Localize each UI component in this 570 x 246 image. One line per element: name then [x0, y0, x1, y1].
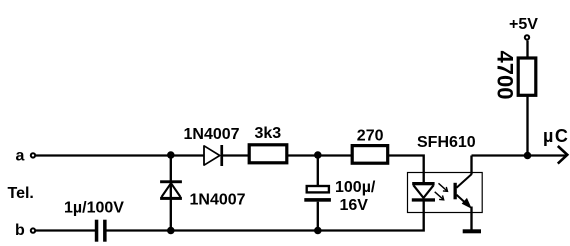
wire R1 to R2 [288, 154, 352, 156]
wire diode D2 branch [170, 156, 172, 231]
wire +5V to R3 [526, 41, 528, 58]
terminal a [31, 153, 35, 157]
svg-text:1µ/100V: 1µ/100V [64, 200, 124, 217]
junction dot a-line/D2 [167, 151, 175, 159]
junction dot output/R3 [524, 152, 532, 160]
svg-text:µC: µC [543, 126, 569, 146]
svg-text:+5V: +5V [509, 16, 538, 33]
diode D2 1N4007 (vertical) [160, 180, 182, 200]
wire Q1 emitter down [470, 207, 472, 231]
capacitor C2 100u/16V [304, 186, 331, 202]
svg-text:a: a [16, 148, 25, 165]
wire output to uC [472, 154, 567, 156]
diode D1 1N4007 (horizontal) [204, 145, 223, 166]
terminal b [31, 228, 35, 232]
arrow to uC [558, 146, 568, 164]
wire b-line right [106, 201, 424, 231]
light arrow 2 [435, 192, 444, 200]
junction dot b-line/C2 [314, 227, 322, 235]
ground [463, 229, 481, 233]
junction dot a-line/C2 [314, 151, 322, 159]
resistor R2 270 [352, 146, 388, 164]
wire R3 to junction [526, 97, 528, 156]
capacitor C1 1u/100V [95, 220, 107, 242]
terminal +5V [525, 35, 529, 39]
svg-text:100µ/: 100µ/ [335, 179, 376, 196]
svg-text:SFH610: SFH610 [417, 134, 476, 151]
LED inside U1 [412, 182, 435, 202]
svg-text:b: b [15, 222, 25, 239]
junction dot b-line/D2 [167, 227, 175, 235]
svg-text:Tel.: Tel. [8, 185, 34, 202]
phototransistor Q1 [454, 174, 472, 208]
svg-text:1N4007: 1N4007 [190, 191, 246, 208]
optocoupler U1 body [408, 173, 483, 213]
svg-text:3k3: 3k3 [255, 125, 282, 142]
wire a-line [36, 154, 204, 156]
wire R2 to optocoupler LED [389, 156, 424, 184]
capacitor C2 branch wire top [317, 156, 319, 187]
svg-text:4700: 4700 [492, 51, 517, 100]
svg-text:270: 270 [357, 128, 384, 145]
capacitor C2 branch wire bottom [317, 202, 319, 231]
svg-text:16V: 16V [340, 197, 369, 214]
resistor R1 3k3 [249, 145, 287, 163]
wire D1 to R1 [223, 154, 249, 156]
wire b-line left [36, 229, 95, 231]
resistor R3 4700 [518, 58, 536, 95]
wire Q1 collector up [470, 156, 472, 175]
light arrow 1 [439, 183, 448, 191]
svg-text:1N4007: 1N4007 [184, 126, 240, 143]
